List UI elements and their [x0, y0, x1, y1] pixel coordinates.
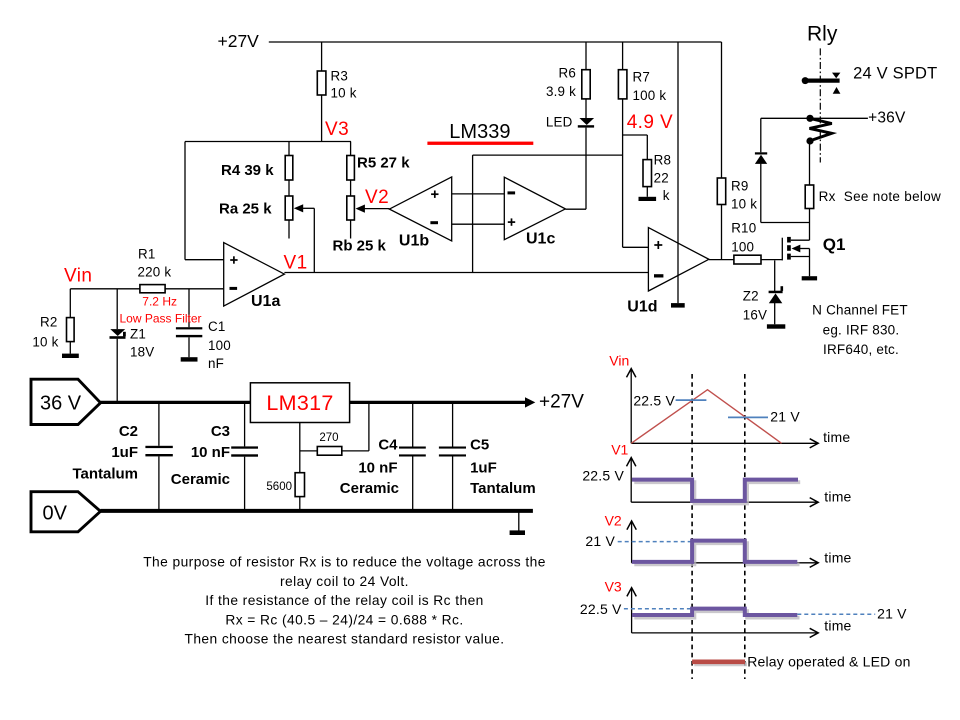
svg-text:Relay operated & LED on: Relay operated & LED on: [747, 654, 910, 670]
svg-text:24 V SPDT: 24 V SPDT: [853, 65, 937, 83]
svg-text:36 V: 36 V: [40, 393, 82, 415]
svg-text:time: time: [824, 489, 851, 505]
svg-text:18V: 18V: [130, 345, 154, 360]
svg-text:time: time: [823, 429, 850, 445]
svg-text:The purpose of resistor Rx is: The purpose of resistor Rx is to reduce …: [143, 555, 546, 570]
svg-text:nF: nF: [208, 356, 224, 371]
svg-text:R8: R8: [654, 153, 672, 168]
svg-text:10 k: 10 k: [32, 335, 58, 350]
svg-text:U1a: U1a: [251, 293, 280, 310]
svg-text:100 k: 100 k: [633, 88, 667, 103]
svg-text:+36V: +36V: [868, 110, 906, 127]
svg-text:R3: R3: [331, 69, 349, 84]
svg-text:1uF: 1uF: [470, 460, 497, 477]
svg-text:Z2: Z2: [743, 289, 759, 304]
svg-text:21 V: 21 V: [770, 409, 800, 425]
svg-text:Tantalum: Tantalum: [470, 480, 536, 497]
svg-text:22: 22: [654, 171, 669, 186]
svg-text:IRF640, etc.: IRF640, etc.: [823, 342, 899, 357]
svg-text:U1b: U1b: [399, 233, 429, 250]
svg-text:C1: C1: [208, 319, 226, 334]
svg-text:LM339: LM339: [449, 121, 510, 143]
svg-text:relay coil to 24 Volt.: relay coil to 24 Volt.: [280, 574, 409, 589]
svg-text:Ceramic: Ceramic: [171, 471, 230, 488]
svg-text:If the resistance of the relay: If the resistance of the relay coil is R…: [205, 593, 484, 608]
svg-text:22.5 V: 22.5 V: [580, 601, 622, 617]
svg-text:Vin: Vin: [64, 266, 92, 287]
svg-text:R9: R9: [731, 179, 749, 194]
svg-text:21 V: 21 V: [585, 533, 615, 549]
svg-text:100: 100: [731, 240, 754, 255]
svg-text:U1c: U1c: [526, 231, 555, 248]
svg-text:time: time: [824, 550, 851, 566]
svg-text:R10: R10: [731, 221, 756, 236]
svg-text:V3: V3: [605, 579, 622, 595]
svg-text:C5: C5: [470, 437, 489, 454]
svg-text:+27V: +27V: [539, 392, 584, 413]
svg-text:Z1: Z1: [130, 327, 146, 342]
svg-text:10 nF: 10 nF: [358, 460, 397, 477]
svg-text:16V: 16V: [743, 308, 767, 323]
svg-text:10 nF: 10 nF: [191, 444, 230, 461]
svg-text:+27V: +27V: [218, 31, 260, 51]
svg-text:eg. IRF 830.: eg. IRF 830.: [823, 323, 900, 338]
svg-text:1uF: 1uF: [111, 444, 138, 461]
svg-text:Rly: Rly: [807, 23, 838, 46]
svg-text:Vin: Vin: [609, 353, 629, 369]
svg-text:22.5 V: 22.5 V: [582, 468, 624, 484]
svg-text:V1: V1: [284, 253, 308, 274]
svg-text:time: time: [824, 618, 851, 634]
svg-text:R5 27 k: R5 27 k: [357, 155, 410, 172]
svg-text:10 k: 10 k: [331, 86, 357, 101]
svg-text:100: 100: [208, 338, 231, 353]
svg-text:LED: LED: [546, 115, 573, 130]
svg-text:7.2 Hz: 7.2 Hz: [142, 295, 177, 309]
svg-text:C2: C2: [119, 423, 138, 440]
svg-text:R4 39 k: R4 39 k: [221, 162, 274, 179]
svg-text:Ra 25 k: Ra 25 k: [219, 201, 272, 218]
svg-text:22.5 V: 22.5 V: [633, 393, 675, 409]
svg-text:R7: R7: [633, 70, 651, 85]
svg-text:R1: R1: [138, 247, 156, 262]
svg-text:U1d: U1d: [627, 299, 657, 316]
svg-text:Low Pass Filter: Low Pass Filter: [120, 312, 202, 326]
svg-text:Rx = Rc (40.5 – 24)/24 = 0.688: Rx = Rc (40.5 – 24)/24 = 0.688 * Rc.: [225, 612, 463, 627]
svg-text:Q1: Q1: [823, 235, 846, 254]
svg-text:R6: R6: [558, 66, 576, 81]
svg-text:10 k: 10 k: [731, 197, 757, 212]
svg-text:Ceramic: Ceramic: [340, 480, 399, 497]
svg-text:Rx See note below: Rx See note below: [819, 189, 941, 204]
svg-text:N Channel FET: N Channel FET: [812, 303, 908, 318]
svg-text:220 k: 220 k: [138, 265, 172, 280]
svg-text:R2: R2: [40, 315, 58, 330]
svg-text:V3: V3: [325, 119, 349, 140]
svg-text:Tantalum: Tantalum: [72, 466, 138, 483]
svg-text:21 V: 21 V: [877, 606, 907, 622]
svg-text:270: 270: [319, 432, 338, 444]
svg-text:k: k: [663, 188, 670, 203]
svg-text:V1: V1: [611, 442, 628, 458]
svg-text:C3: C3: [211, 423, 230, 440]
svg-text:3.9 k: 3.9 k: [546, 84, 576, 99]
svg-text:LM317: LM317: [266, 391, 333, 415]
svg-text:V2: V2: [365, 187, 389, 208]
svg-text:V2: V2: [605, 513, 622, 529]
svg-text:C4: C4: [378, 437, 398, 454]
svg-text:4.9 V: 4.9 V: [627, 112, 673, 133]
svg-text:Then choose the nearest standa: Then choose the nearest standard resisto…: [184, 632, 504, 647]
svg-text:5600: 5600: [266, 481, 292, 493]
svg-text:0V: 0V: [43, 503, 68, 525]
svg-text:Rb 25 k: Rb 25 k: [333, 238, 387, 255]
